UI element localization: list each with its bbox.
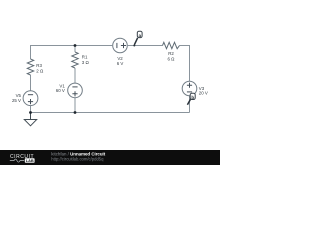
wire V3-to-corner [189,96,191,113]
wire right vertical to V3 [189,45,191,81]
svg-text:LAB: LAB [26,158,34,163]
resistor R3 [27,59,44,75]
svg-text:60 V: 60 V [56,88,65,93]
wire left vertical R3 lead [30,45,32,59]
wire R2-to-corner [180,45,191,47]
svg-text:3 Ω: 3 Ω [82,60,90,65]
voltage source V3 [182,81,208,96]
wire bottom horizontal [31,112,190,114]
wire middle R1 lead [74,46,76,53]
junction at V1 bottom [74,111,77,114]
voltage source V2 [113,38,128,66]
junction at V5 bottom [29,111,32,114]
wire top-left horizontal [31,45,113,47]
logo CircuitLab [10,154,35,163]
svg-text:R2: R2 [168,51,174,56]
resistor R2 [163,42,180,61]
voltage source V1 [56,83,83,98]
node flag b [187,93,195,104]
wire top V2-to-R2 [128,45,163,47]
svg-text:R3: R3 [36,63,42,68]
svg-text:http://circuitlab.com/c/pdd5q: http://circuitlab.com/c/pdd5q [51,156,104,161]
wire V1-to-bottom [74,98,76,113]
svg-text:20 V: 20 V [199,91,208,96]
wire V5-to-bottom [30,106,32,113]
ground [24,113,36,126]
footer bar [0,150,220,165]
svg-text:b: b [191,95,194,100]
resistor R1 [72,52,90,68]
svg-text:R1: R1 [82,55,88,60]
svg-text:6 Ω: 6 Ω [168,56,176,61]
junction at R1 top [74,44,77,47]
svg-text:25 V: 25 V [12,98,21,103]
svg-text:2 Ω: 2 Ω [36,68,44,73]
wire R1-to-V1 [74,68,76,83]
svg-text:6 V: 6 V [117,61,124,66]
wire R3-to-V5 [30,75,32,91]
voltage source V5 [12,91,38,106]
node flag a [133,31,142,46]
